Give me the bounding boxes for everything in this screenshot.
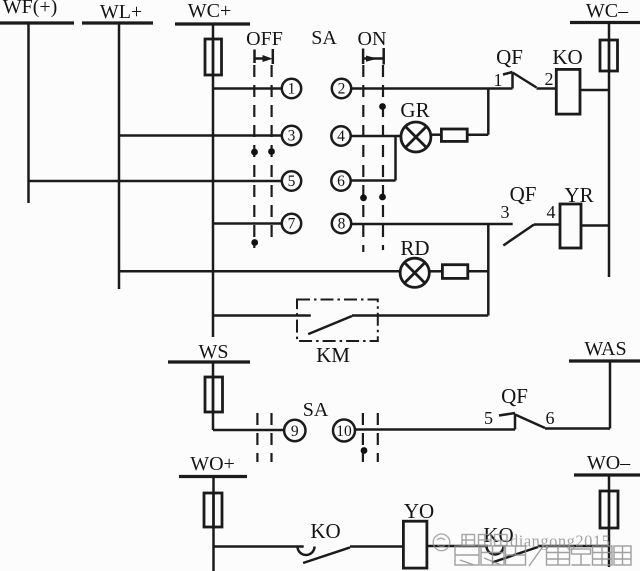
- svg-text:3: 3: [288, 128, 296, 145]
- svg-text:QF: QF: [510, 182, 537, 206]
- relay coil KO: [556, 69, 580, 114]
- wire tie QF3 row to KM row: [487, 224, 490, 316]
- svg-text:WO+: WO+: [190, 453, 235, 475]
- wire resistor to row1 tie: [467, 133, 488, 136]
- wire tie row4 to row6: [394, 136, 397, 181]
- svg-text:RD: RD: [400, 236, 429, 260]
- svg-text:KO: KO: [310, 519, 340, 543]
- wire WF(+) vertical feeder: [27, 23, 30, 203]
- svg-text:GR: GR: [400, 98, 429, 122]
- wire WO- vertical feeder: [608, 475, 611, 567]
- wire KO contact to WO-: [538, 545, 609, 548]
- wire WC- vertical feeder: [608, 23, 611, 278]
- wire WAS vertical feeder: [609, 361, 612, 429]
- breaker aux contact QF 5-6: [499, 413, 610, 430]
- svg-text:2: 2: [545, 69, 554, 89]
- fuse FU1 on WC+: [205, 39, 222, 75]
- dot SA bottom (below contact 10): [361, 447, 368, 454]
- wire row 6 from contact 6 to tie: [351, 179, 396, 182]
- svg-text:QF: QF: [496, 45, 523, 69]
- fuse FU5 on WO-: [600, 491, 618, 528]
- svg-text:5: 5: [484, 408, 493, 428]
- KM dash-dot enclosure: [297, 300, 378, 342]
- breaker aux contact QF 3-4 (open): [503, 225, 560, 246]
- fuse FU3 on WS: [205, 377, 223, 412]
- svg-text:WC+: WC+: [188, 0, 232, 22]
- SA terminal 6: [331, 171, 350, 190]
- bus WC-: [570, 21, 640, 24]
- ON position arrow: [363, 48, 384, 65]
- svg-text:WAS: WAS: [584, 338, 626, 360]
- wire row 4 from contact 4 to lamp GR: [351, 135, 401, 138]
- wire YR to WC-: [581, 224, 609, 227]
- wire KO contact to YO: [350, 545, 403, 548]
- svg-text:SA: SA: [303, 399, 329, 421]
- svg-text:1: 1: [288, 81, 296, 98]
- bus WF(+): [0, 21, 74, 24]
- relay contact KO (left, delayed): [298, 547, 351, 564]
- SA terminal 4: [331, 126, 350, 145]
- svg-text:9: 9: [291, 423, 299, 440]
- svg-text:OFF: OFF: [246, 28, 283, 50]
- wire KM row from WC+: [213, 314, 311, 317]
- svg-text:ON: ON: [358, 28, 387, 50]
- wire WO+ vertical feeder: [212, 477, 215, 571]
- resistor R1 (GR series): [441, 129, 467, 141]
- wire row 8 from contact 8 to QF: [351, 223, 512, 226]
- SA OFF dashed line left: [253, 65, 255, 248]
- svg-text:4: 4: [547, 202, 556, 222]
- wire WO+ row to KO contact: [214, 545, 304, 548]
- svg-text:SA: SA: [311, 27, 337, 49]
- lamp RD: [400, 258, 429, 287]
- dot SA ON right (closed mark row1): [379, 103, 386, 110]
- relay coil YR: [560, 204, 581, 248]
- SA bottom dashed line right pair: [362, 413, 364, 462]
- SA terminal 10: [333, 420, 355, 442]
- svg-text:6: 6: [546, 408, 555, 428]
- SA bottom dashed line left pair: [256, 413, 258, 462]
- watermark logo circle: [433, 534, 450, 551]
- SA OFF dashed line right: [271, 65, 273, 245]
- SA terminal 7: [282, 214, 301, 233]
- wire WS vertical feeder: [212, 362, 215, 430]
- wire row from contact 10 to QF: [355, 428, 515, 431]
- SA terminal 2: [332, 79, 351, 98]
- dots SA ON pair (below row 6): [360, 194, 367, 201]
- relay coil YO: [403, 521, 427, 568]
- wire WC+ vertical feeder: [212, 24, 215, 337]
- wire YO to KO contact right: [427, 545, 488, 548]
- svg-text:KM: KM: [316, 343, 350, 367]
- wire WL+ vertical feeder: [118, 23, 121, 289]
- SA terminal 9: [284, 420, 305, 441]
- dots SA OFF pair (rows 3-5): [251, 149, 258, 156]
- wire row 1 from contact 2 to QF: [351, 87, 512, 90]
- svg-text:KO: KO: [552, 45, 582, 69]
- dot SA OFF left (below row 7): [251, 239, 258, 246]
- svg-text:WS: WS: [199, 341, 229, 363]
- svg-text:5: 5: [288, 173, 296, 190]
- svg-text:WC–: WC–: [586, 0, 629, 22]
- wire KO to WC-: [580, 89, 609, 92]
- fuse FU2 on WC-: [600, 40, 618, 71]
- wire row 1 from WC+ to contact 1: [213, 87, 282, 90]
- svg-text:QF: QF: [501, 384, 528, 408]
- contactor contact KM: [308, 316, 352, 334]
- wire tie GR branch to row 1: [487, 89, 490, 135]
- svg-text:10: 10: [336, 423, 352, 440]
- svg-text:2: 2: [338, 81, 346, 98]
- SA ON dashed line right: [382, 65, 384, 250]
- svg-text:1: 1: [494, 70, 503, 90]
- wire RD lamp to resistor: [429, 270, 442, 273]
- wire GR lamp to resistor: [431, 133, 442, 136]
- bus WO+: [179, 475, 247, 478]
- lamp GR: [401, 122, 431, 152]
- watermark line 2: [455, 545, 631, 566]
- svg-text:WO–: WO–: [587, 452, 631, 474]
- svg-text:3: 3: [501, 202, 510, 222]
- SA ON dashed line left: [362, 65, 364, 252]
- svg-text:YR: YR: [564, 183, 593, 207]
- fuse FU4 on WO+: [204, 493, 222, 527]
- watermark line 1: [462, 532, 610, 551]
- SA terminal 3: [282, 126, 301, 145]
- wire RD row from WL+ to lamp RD: [119, 270, 400, 273]
- resistor R2 (RD series): [442, 265, 467, 279]
- wire row 3 from WL+ to contact 3: [119, 134, 282, 137]
- svg-text:6: 6: [337, 173, 345, 190]
- SA terminal 1: [282, 79, 301, 98]
- SA terminal 8: [332, 214, 351, 233]
- relay contact KO (right, delayed): [487, 546, 539, 563]
- SA terminal 5: [282, 171, 301, 190]
- svg-text:WF(+): WF(+): [3, 0, 58, 18]
- bus WC+: [175, 22, 250, 25]
- svg-text:7: 7: [288, 216, 296, 233]
- bus WAS: [569, 359, 640, 362]
- OFF position arrow: [255, 49, 273, 64]
- svg-text:4: 4: [337, 128, 345, 145]
- bus WS: [168, 360, 250, 363]
- wire WS row to contact 9: [213, 429, 284, 432]
- wire KM contact to tie: [352, 314, 488, 317]
- svg-text:8: 8: [338, 216, 346, 233]
- svg-text:YO: YO: [404, 499, 434, 523]
- bus WL+: [82, 21, 153, 24]
- bus WO-: [574, 473, 640, 476]
- wire row 7 from WC+ to contact 7: [213, 222, 282, 225]
- svg-text:WL+: WL+: [100, 1, 142, 23]
- breaker aux contact QF 1-2: [503, 72, 556, 89]
- wire resistor to tie: [468, 270, 489, 273]
- wire row 5 from WF(+) to contact 5: [29, 180, 282, 183]
